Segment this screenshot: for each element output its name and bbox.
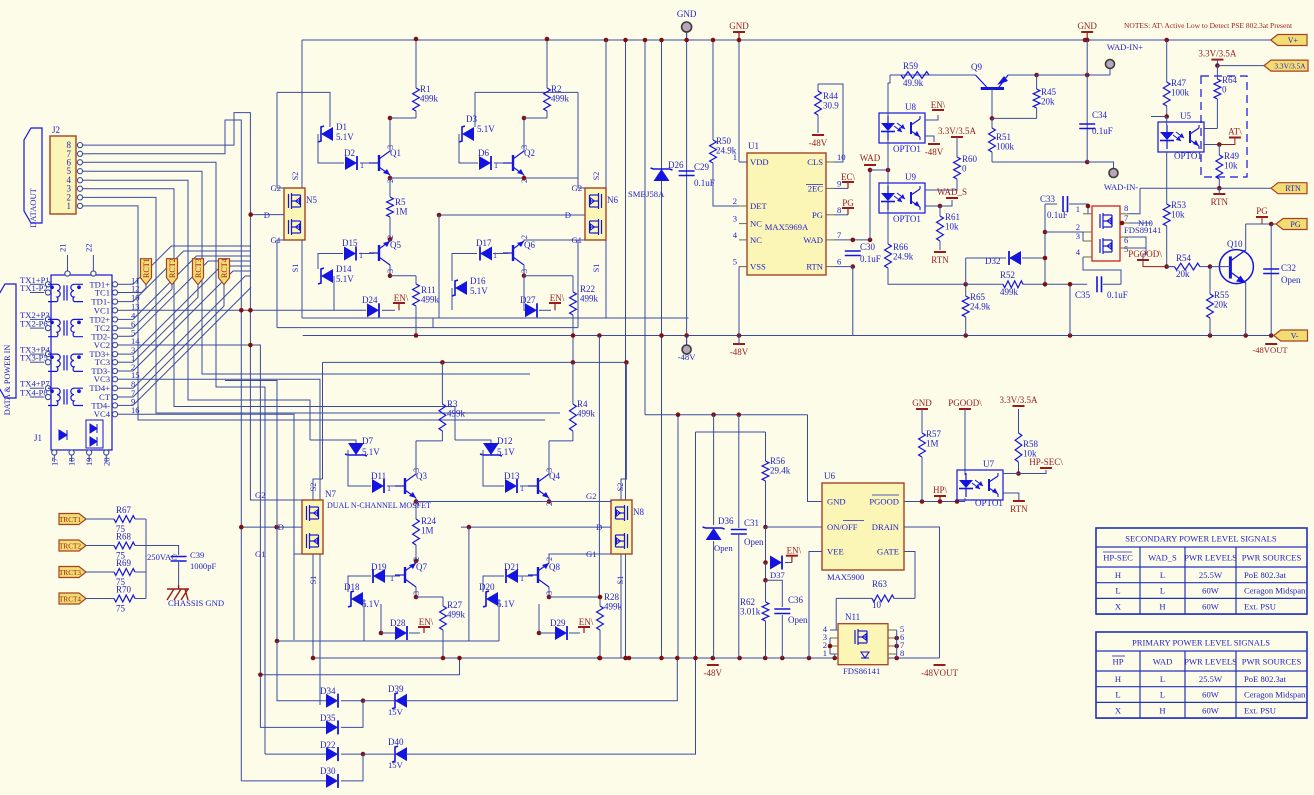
- svg-text:Q6: Q6: [524, 240, 535, 250]
- wire D32 col: [965, 258, 967, 284]
- wire D3 anode lead: [474, 92, 476, 127]
- svg-text:SMBJ58A: SMBJ58A: [628, 189, 665, 199]
- svg-text:D11: D11: [371, 471, 386, 481]
- capacitor C30 0.1uF: [845, 242, 881, 264]
- wire Q4 emitter: [548, 498, 550, 502]
- wire D17 to Q6 base: [493, 253, 508, 255]
- svg-text:EN\: EN\: [394, 293, 409, 303]
- wire D12 to D13: [483, 450, 504, 486]
- svg-text:PoE 802.3at: PoE 802.3at: [1244, 570, 1287, 580]
- pin J1 20: [101, 450, 111, 466]
- wire J2-1 net: [90, 206, 545, 420]
- labels N6 pins: [565, 172, 601, 272]
- svg-text:1: 1: [494, 161, 498, 170]
- svg-text:D6: D6: [478, 148, 489, 158]
- pin J1 TD1+ (11): [89, 275, 139, 289]
- junction x645 rail: [643, 38, 648, 43]
- capacitor C36 Open: [774, 595, 808, 625]
- wire D6 to Q2 base: [494, 162, 508, 164]
- zener D7 5.1V: [345, 436, 380, 457]
- wire lower gate drive row: [416, 501, 545, 503]
- optocoupler U8: [879, 102, 925, 154]
- junctions top rail: [604, 38, 1090, 43]
- svg-text:D17: D17: [476, 238, 492, 248]
- junction C34 col: [1085, 73, 1090, 78]
- wire N5 D: [251, 214, 284, 216]
- resistor R69 75: [110, 558, 146, 587]
- svg-text:Q10: Q10: [1227, 239, 1243, 249]
- svg-text:3.3V/3.5A: 3.3V/3.5A: [1274, 62, 1306, 71]
- wire G1 column tail: [293, 554, 295, 640]
- power EN\ (D37): [786, 546, 802, 563]
- junctions PGOOD row: [920, 499, 960, 504]
- wire top feed row: [645, 414, 808, 416]
- optocoupler U9: [879, 172, 925, 224]
- svg-text:R5: R5: [395, 197, 406, 207]
- junction Q4 emitter: [547, 499, 552, 504]
- pin J1 19: [84, 450, 94, 466]
- svg-text:EN\: EN\: [931, 100, 946, 110]
- power -48V (U8): [925, 144, 944, 157]
- wire Q6 to R22: [524, 275, 573, 277]
- wire pin3 to pin2 col: [1082, 232, 1084, 241]
- overline HP: [1112, 655, 1125, 657]
- svg-text:R52: R52: [1000, 270, 1015, 280]
- junction D37: [763, 560, 768, 565]
- wire D40 out to rail: [406, 658, 696, 754]
- junction pin7: [1120, 221, 1125, 226]
- wire Q7 to R27: [416, 596, 443, 598]
- svg-text:FDS86141: FDS86141: [843, 666, 880, 676]
- wire R63 to pin4: [830, 598, 836, 630]
- svg-text:D29: D29: [550, 618, 566, 628]
- pin U1 CLS (10): [807, 152, 845, 167]
- wire D15 anode loop: [318, 254, 343, 270]
- junction R45 top: [1034, 73, 1039, 78]
- svg-text:15V: 15V: [388, 707, 404, 717]
- svg-text:PG: PG: [1256, 206, 1268, 216]
- wire C31 bottom: [738, 535, 740, 658]
- wire -48V bottom rail: [313, 657, 940, 659]
- junction R5 bottom: [388, 237, 393, 242]
- wire emitter rail to C34 col: [1037, 74, 1088, 76]
- svg-text:VDD: VDD: [750, 157, 769, 167]
- svg-text:1: 1: [390, 574, 394, 583]
- transistor Q2: [503, 145, 535, 183]
- svg-text:C30: C30: [860, 242, 876, 252]
- wire pin4 loop: [1083, 257, 1121, 284]
- svg-text:10: 10: [837, 152, 846, 162]
- wire to C39: [146, 546, 179, 556]
- junctions C33 column: [1043, 230, 1048, 287]
- svg-text:EN\: EN\: [787, 546, 802, 556]
- svg-text:R56: R56: [770, 456, 786, 466]
- wire N7 S2 up: [313, 479, 323, 500]
- svg-text:C31: C31: [744, 518, 759, 528]
- svg-text:60W: 60W: [1202, 690, 1220, 700]
- svg-text:TX2-P6: TX2-P6: [20, 319, 48, 329]
- wire lower block top rail: [323, 361, 627, 363]
- pin J1 TC3 (1): [95, 353, 136, 367]
- transistor Q6: [503, 235, 535, 273]
- svg-text:V+: V+: [1288, 36, 1299, 45]
- dual mosfet N8: [611, 500, 644, 554]
- svg-text:100k: 100k: [996, 142, 1015, 152]
- wire Q3 emitter: [415, 498, 417, 519]
- svg-text:R69: R69: [116, 558, 132, 568]
- wire D28 to EN: [409, 632, 420, 634]
- svg-text:D7: D7: [362, 436, 373, 446]
- resistor R68 75: [110, 532, 146, 561]
- resistor R52 499k: [966, 270, 1045, 297]
- zener D39 15V: [388, 684, 407, 709]
- svg-text:R50: R50: [716, 136, 732, 146]
- IC U6 MAX5900: [822, 471, 904, 582]
- junctions rail y336: [414, 333, 742, 338]
- svg-text:D18: D18: [344, 582, 360, 592]
- resistor R62 3.01k: [740, 580, 769, 658]
- svg-text:60W: 60W: [1202, 601, 1220, 611]
- wire TRCT3 to R69: [86, 571, 110, 573]
- svg-text:75: 75: [116, 604, 126, 614]
- diode D34: [320, 686, 338, 708]
- wire N7 D: [241, 526, 302, 528]
- svg-text:Q8: Q8: [549, 562, 560, 572]
- svg-text:D2: D2: [344, 148, 355, 158]
- svg-text:PGOOD\: PGOOD\: [1128, 249, 1162, 259]
- wire N5 G2 feed: [277, 92, 284, 188]
- junction RTN row: [1217, 186, 1222, 191]
- svg-text:0.1uF: 0.1uF: [860, 254, 881, 264]
- svg-text:19: 19: [84, 457, 94, 466]
- svg-text:R60: R60: [962, 154, 978, 164]
- svg-text:1: 1: [493, 251, 497, 260]
- wire pin8 up: [1129, 188, 1140, 214]
- svg-text:R58: R58: [1023, 439, 1039, 449]
- wire gate drive to N6 G2: [390, 178, 585, 188]
- resistor R22 499k: [570, 276, 599, 336]
- svg-text:Q5: Q5: [390, 240, 401, 250]
- junction ladder A: [275, 639, 280, 644]
- wire Q9 collector: [991, 89, 993, 119]
- svg-text:R1: R1: [420, 84, 431, 94]
- power RTN (R49): [1211, 194, 1229, 207]
- dual mosfet N6: [585, 188, 618, 240]
- wire D13 to Q4: [520, 485, 533, 487]
- wire tie to PGOOD bar: [1143, 248, 1146, 260]
- pin J1 TD4+ (8): [89, 379, 135, 393]
- wire PG bar link: [1246, 217, 1262, 224]
- svg-text:20k: 20k: [1176, 269, 1190, 279]
- wire to 3.3V flag: [1217, 65, 1272, 67]
- svg-text:D35: D35: [320, 713, 336, 723]
- wire VC4 row: [128, 414, 302, 554]
- svg-text:D3: D3: [466, 114, 477, 124]
- wire RTN stem: [1218, 188, 1220, 194]
- overline HP-SEC: [1103, 551, 1132, 553]
- junction N7 D: [274, 525, 279, 530]
- transistor Q10 (NPN): [1210, 239, 1253, 284]
- wire Q3 collector: [415, 441, 417, 474]
- wire D30 left: [241, 780, 327, 782]
- power EN\ (D28): [418, 617, 434, 633]
- power EN\ (D29): [578, 617, 594, 633]
- zener D3 5.1V: [459, 114, 495, 142]
- svg-text:3.01k: 3.01k: [740, 607, 761, 617]
- junction HP-SEC node: [1016, 471, 1021, 476]
- svg-text:U7: U7: [983, 459, 994, 469]
- svg-text:C32: C32: [1281, 263, 1296, 273]
- power EN\ (U8): [931, 100, 946, 110]
- svg-text:Q7: Q7: [416, 562, 427, 572]
- svg-text:EN\: EN\: [550, 293, 565, 303]
- dashed option box: [1201, 76, 1247, 177]
- flag 3.3V/3.5A: [1264, 60, 1308, 71]
- svg-text:-48V: -48V: [678, 352, 696, 362]
- svg-text:NC: NC: [750, 219, 762, 229]
- svg-text:1: 1: [387, 484, 391, 493]
- svg-text:PWR SOURCES: PWR SOURCES: [1242, 553, 1302, 563]
- svg-text:D27: D27: [520, 295, 536, 305]
- capacitor C39 1000pF: [171, 557, 187, 562]
- svg-text:C39: C39: [190, 550, 204, 560]
- wire Q1 collector: [389, 118, 391, 151]
- wire TRCT2 to R68: [86, 545, 110, 547]
- svg-text:RTN: RTN: [806, 262, 823, 272]
- wire Q2 emitter: [523, 175, 525, 178]
- wire DRAIN to -48VOUT: [904, 527, 940, 658]
- svg-text:U1: U1: [748, 141, 759, 151]
- zener D18 5.1V: [344, 582, 380, 609]
- wire WAD to opto column: [870, 169, 888, 171]
- svg-text:C35: C35: [1075, 290, 1091, 300]
- svg-text:3: 3: [733, 214, 737, 224]
- svg-text:N6: N6: [607, 195, 618, 205]
- junction R62/C36: [763, 578, 768, 583]
- wire VEE down: [809, 552, 822, 659]
- svg-text:RCT4: RCT4: [220, 258, 229, 278]
- junction Q2 emitter node: [522, 176, 527, 181]
- wire Q6 emitter to N6 G1: [524, 240, 585, 241]
- svg-text:60W: 60W: [1202, 705, 1220, 715]
- wire x678 column: [677, 415, 679, 658]
- pin J1 TD4- (9): [91, 396, 135, 410]
- wire C31 column: [738, 415, 740, 528]
- svg-text:V-: V-: [1291, 332, 1299, 341]
- diode D32: [985, 251, 1021, 266]
- resistor R27 499k: [440, 597, 466, 658]
- wire D1 anode loop: [277, 92, 330, 127]
- svg-text:10: 10: [872, 600, 882, 610]
- svg-text:CHASSIS GND: CHASSIS GND: [168, 598, 224, 608]
- wire PG to flag: [1246, 223, 1276, 225]
- pin J1 TD3- (2): [91, 362, 135, 376]
- svg-text:4: 4: [733, 230, 738, 240]
- svg-text:PWR LEVELS: PWR LEVELS: [1184, 553, 1237, 563]
- wire Q5 to R11: [390, 275, 416, 277]
- wire N6 G1 down: [578, 240, 585, 328]
- capacitor C33 0.1uF: [1040, 194, 1068, 220]
- wire to U6 GND: [808, 415, 823, 502]
- junction pin1 node: [1086, 204, 1091, 209]
- diode D37: [770, 556, 782, 570]
- junction Q8 collector: [547, 595, 552, 600]
- pin J2-2: [67, 192, 91, 202]
- labels N8: [586, 483, 625, 584]
- svg-text:H: H: [1115, 570, 1121, 580]
- svg-text:250VAC: 250VAC: [147, 552, 177, 562]
- wire RTN column down: [852, 267, 854, 336]
- svg-text:1: 1: [359, 251, 363, 260]
- wire x1070 riser: [1069, 284, 1071, 335]
- junctions VC rows: [239, 308, 253, 347]
- wire RCT1 stem: [128, 285, 146, 293]
- zener D20 5.1V: [479, 582, 515, 609]
- svg-text:L: L: [1115, 690, 1120, 700]
- wire J2-7 net: [90, 120, 241, 781]
- transistor Q4: [528, 468, 560, 506]
- diode D19: [371, 562, 387, 583]
- wire RCT3 stem: [128, 285, 198, 363]
- wire R50 to DET: [713, 163, 739, 206]
- wire D16 down: [451, 288, 453, 310]
- wire D30 up to node: [341, 754, 363, 781]
- wire R3 bottom link: [416, 440, 442, 442]
- pin J1 TX3+P4: [20, 345, 51, 357]
- wire pin1 to rail: [830, 654, 835, 658]
- terminal GND (gray): [677, 9, 697, 40]
- pin J1 22: [83, 243, 96, 276]
- svg-text:3.3V/3.5A: 3.3V/3.5A: [938, 126, 977, 136]
- svg-text:WAD: WAD: [1153, 657, 1173, 667]
- flag RCT2: [167, 258, 178, 284]
- wire to D28: [381, 632, 396, 634]
- svg-text:0.1uF: 0.1uF: [1047, 210, 1068, 220]
- svg-text:WAD-IN+: WAD-IN+: [1107, 42, 1144, 52]
- svg-text:C36: C36: [788, 595, 804, 605]
- svg-text:R3: R3: [447, 399, 458, 409]
- diode D28: [390, 618, 407, 640]
- wire D21 anode loop: [483, 576, 504, 592]
- power GND at 739: [729, 21, 749, 40]
- svg-text:R28: R28: [604, 592, 620, 602]
- svg-text:Ceragon Midspan: Ceragon Midspan: [1244, 586, 1306, 596]
- wire AT bar link: [1219, 138, 1235, 145]
- svg-text:CLS: CLS: [807, 157, 823, 167]
- pins U6: [827, 495, 900, 557]
- wire to D29: [539, 632, 556, 634]
- resistor R24 1M: [413, 502, 437, 562]
- flag RCT3: [193, 258, 204, 284]
- junction R28 top: [598, 595, 603, 600]
- wire to D37: [765, 527, 767, 563]
- svg-text:N8: N8: [633, 507, 644, 517]
- pin U1 DET (2): [733, 196, 768, 211]
- svg-text:TX3-P5: TX3-P5: [20, 353, 48, 363]
- svg-text:PGOOD\: PGOOD\: [948, 398, 982, 408]
- pin U1 VDD (1): [733, 152, 769, 167]
- svg-text:499k: 499k: [447, 409, 466, 419]
- svg-text:R47: R47: [1171, 78, 1187, 88]
- junction R1 rail: [414, 37, 419, 42]
- svg-text:GND: GND: [827, 497, 846, 507]
- wire C39 to chassis: [178, 562, 180, 585]
- svg-text:D30: D30: [320, 766, 336, 776]
- IC N10 FDS89141 (dual mosfet): [1092, 206, 1120, 261]
- svg-text:8: 8: [837, 205, 841, 215]
- svg-text:TRCT2: TRCT2: [59, 543, 81, 551]
- junction D34 D39: [361, 698, 366, 703]
- pin U1 NC (4): [733, 230, 763, 245]
- svg-text:2: 2: [520, 235, 529, 239]
- pin J1 TX1+P1: [20, 275, 51, 287]
- wire column x277: [225, 381, 277, 642]
- wire Q6 collector down: [523, 265, 525, 276]
- wire VC3 row: [128, 379, 320, 705]
- svg-text:0.1uF: 0.1uF: [1092, 126, 1113, 136]
- svg-text:TRCT4: TRCT4: [59, 596, 81, 604]
- svg-text:1: 1: [67, 201, 72, 211]
- wire VDD link: [739, 161, 747, 163]
- power GND at 1087: [1077, 21, 1097, 40]
- labels N5 pins: [264, 172, 300, 272]
- pin J1 TX3-P5: [20, 353, 51, 365]
- svg-text:8: 8: [1124, 203, 1128, 213]
- power HP-SEC\: [1029, 457, 1063, 468]
- power GND (R57): [912, 398, 932, 409]
- capacitor C35 0.1uF: [1075, 276, 1128, 300]
- pin U1 VSS (5): [733, 257, 766, 272]
- resistor R49 10k: [1216, 145, 1240, 189]
- wire D22 left: [265, 753, 327, 755]
- svg-text:R45: R45: [1041, 87, 1057, 97]
- svg-text:499k: 499k: [420, 94, 439, 104]
- svg-text:NOTES: AT\ Active Low to Detec: NOTES: AT\ Active Low to Detect PSE 802.…: [1124, 21, 1293, 30]
- wire N7 S1 down: [312, 554, 314, 658]
- diode D6: [478, 148, 491, 170]
- wire R66 to R52 row: [888, 283, 966, 284]
- junction Q7 collector: [414, 595, 419, 600]
- svg-text:VSS: VSS: [750, 262, 766, 272]
- svg-text:D13: D13: [504, 471, 520, 481]
- junction WAD_S node: [938, 204, 943, 209]
- svg-text:Ext. PSU: Ext. PSU: [1244, 601, 1277, 611]
- wire R59 row: [890, 74, 976, 76]
- svg-text:1: 1: [733, 152, 737, 162]
- wire upper block rail y318: [302, 317, 689, 319]
- wire D22-D40: [341, 753, 363, 755]
- svg-text:L: L: [1115, 586, 1120, 596]
- svg-text:499k: 499k: [604, 602, 623, 612]
- chassis ground: [167, 585, 189, 600]
- resistor R28 499k: [597, 592, 623, 658]
- diode D29: [550, 618, 567, 640]
- svg-text:5.1V: 5.1V: [362, 447, 380, 457]
- power -48V (R44): [809, 135, 828, 148]
- svg-text:NC: NC: [750, 235, 762, 245]
- svg-text:60W: 60W: [1202, 586, 1220, 596]
- junction AT node: [1217, 142, 1222, 147]
- transformer windings T1-T4: [48, 284, 83, 405]
- pin J1 21: [58, 243, 71, 276]
- wire J2-4 net: [90, 180, 310, 440]
- wire C34 column: [1086, 40, 1088, 162]
- wire D32 anode row: [966, 257, 1006, 259]
- wire TRCT common: [145, 519, 147, 599]
- wire C36 bottom: [781, 615, 783, 658]
- wire top V+ rail: [302, 39, 1271, 41]
- svg-text:D28: D28: [390, 618, 406, 628]
